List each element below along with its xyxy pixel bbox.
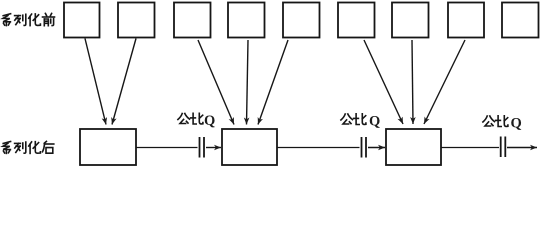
arrow S2 to B1 [112, 39, 136, 125]
svg-text:Q: Q [204, 113, 215, 129]
arrow S4 to B2 [247, 40, 249, 125]
capacitor C3 [501, 137, 506, 158]
box B1 [80, 129, 136, 165]
box S7 [392, 3, 429, 38]
label 公比Q C2 [341, 114, 380, 130]
arrow S5 to B2 [258, 40, 288, 125]
wire B2 to C2 [277, 147, 360, 149]
box B3 [386, 129, 441, 165]
label 系列化后 [3, 141, 54, 153]
arrow S6 to B3 [364, 40, 403, 124]
box S1 [64, 3, 100, 38]
wire C3 output [507, 147, 537, 149]
label 公比Q C3 [483, 116, 522, 132]
svg-text:Q: Q [511, 116, 522, 132]
wire C2 to B3 [368, 147, 385, 149]
box S8 [448, 3, 484, 38]
svg-text:Q: Q [369, 114, 380, 130]
box S9 [502, 3, 539, 38]
arrow S8 to B3 [424, 40, 465, 124]
arrow S1 to B1 [85, 39, 106, 125]
box B2 [222, 129, 277, 165]
box S5 [283, 3, 320, 38]
arrow S7 to B3 [412, 40, 413, 124]
box S4 [228, 3, 265, 38]
box S2 [118, 3, 155, 38]
label 系列化前 [3, 13, 55, 25]
box S3 [174, 3, 211, 38]
wire B3 to C3 [441, 147, 499, 149]
wire B1 to C1 [136, 147, 198, 149]
wire C1 to B2 [206, 147, 221, 149]
capacitor C2 [362, 137, 367, 158]
arrow S3 to B2 [198, 40, 234, 125]
box S6 [338, 3, 375, 38]
label 公比Q C1 [178, 113, 215, 129]
capacitor C1 [200, 137, 205, 158]
